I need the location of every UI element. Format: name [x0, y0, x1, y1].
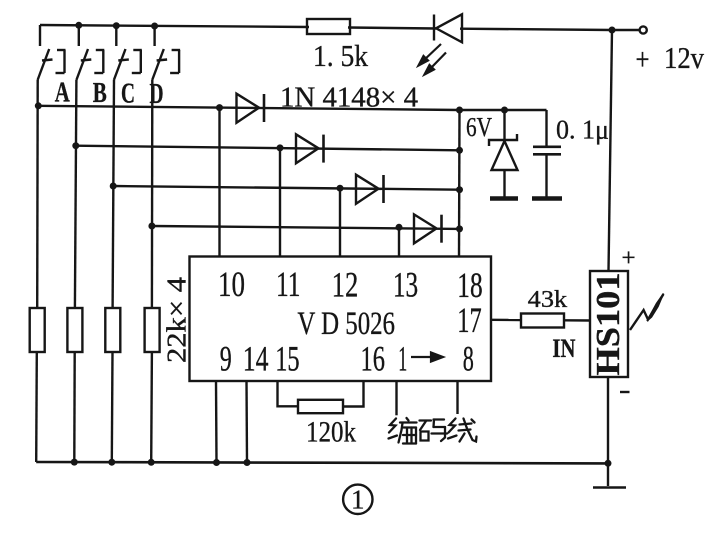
svg-text:14: 14: [243, 339, 269, 379]
svg-text:15: 15: [275, 339, 299, 379]
svg-text:0. 1μ: 0. 1μ: [556, 115, 609, 145]
svg-text:V D 5026: V D 5026: [297, 306, 395, 342]
svg-text:A: A: [55, 77, 70, 109]
svg-text:11: 11: [276, 264, 301, 304]
svg-text:22k× 4: 22k× 4: [162, 276, 192, 363]
svg-text:10: 10: [218, 264, 245, 304]
svg-text:C: C: [121, 78, 135, 110]
svg-text:13: 13: [393, 265, 418, 305]
svg-text:9: 9: [220, 339, 232, 379]
svg-text:43k: 43k: [528, 287, 568, 313]
svg-text:IN: IN: [552, 334, 575, 363]
svg-text:+: +: [622, 245, 636, 272]
svg-text:120k: 120k: [306, 416, 356, 449]
svg-text:6V: 6V: [466, 112, 492, 142]
svg-text:18: 18: [457, 265, 482, 305]
svg-text:1N 4148× 4: 1N 4148× 4: [280, 83, 418, 114]
svg-text:1: 1: [351, 485, 365, 515]
svg-text:16: 16: [361, 339, 385, 379]
svg-text:12v: 12v: [664, 40, 704, 75]
svg-text:+: +: [636, 42, 650, 77]
svg-text:17: 17: [457, 300, 481, 340]
svg-text:8: 8: [463, 339, 474, 379]
svg-text:D: D: [150, 78, 164, 110]
svg-text:B: B: [93, 77, 107, 109]
svg-text:12: 12: [332, 264, 359, 304]
svg-text:1: 1: [398, 339, 407, 379]
svg-text:HS101: HS101: [590, 273, 627, 376]
svg-text:1. 5k: 1. 5k: [313, 38, 368, 73]
